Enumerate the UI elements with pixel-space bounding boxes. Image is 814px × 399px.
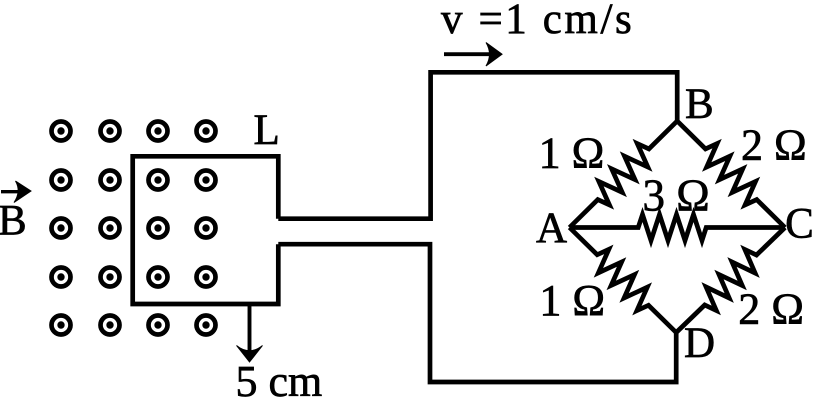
B field vector arrow [1,181,31,203]
field dot 2 [101,122,120,141]
field dot 13 [52,268,71,287]
field dot 14 [101,268,120,287]
velocity arrow [444,43,502,67]
wire upper lead to bridge node B [278,72,677,218]
field dot 8 [197,171,216,190]
svg-text:1 Ω: 1 Ω [539,129,605,178]
svg-text:1 Ω: 1 Ω [539,276,605,325]
wire lower lead to bridge node D [278,244,676,382]
field dot 19 [149,316,168,335]
svg-text:3 Ω: 3 Ω [643,171,710,221]
field dot 5 [52,171,71,190]
svg-text:2 Ω: 2 Ω [741,121,807,170]
field dot 17 [52,316,71,335]
svg-text:5 cm: 5 cm [236,357,323,399]
conducting loop L (square with gap on right side) [133,156,279,304]
field dot 11 [149,219,168,238]
5 cm arrow (down) [237,304,263,362]
resistor 2-ohm arm D-C [676,228,785,333]
resistor 1-ohm arm A-D [570,228,677,333]
resistor 2-ohm arm B-C [677,121,785,228]
svg-text:C: C [785,201,814,248]
field dot 15 [149,268,168,287]
field dot 16 [197,268,216,287]
svg-text:B: B [685,81,714,128]
field dot 20 [197,316,216,335]
svg-text:L: L [254,107,280,154]
resistor 1-ohm arm A-B [570,121,678,228]
svg-text:B: B [0,198,27,245]
field dot 3 [149,122,168,141]
field dot 7 [149,171,168,190]
field dot 4 [197,122,216,141]
svg-text:v =1 cm/s: v =1 cm/s [441,0,634,43]
field dot 18 [101,316,120,335]
field dot 12 [197,219,216,238]
field dot 1 [52,122,71,141]
svg-text:D: D [684,320,715,367]
resistor 3-ohm bridge A-C [570,215,786,241]
field dot 9 [52,219,71,238]
field dot 6 [101,171,120,190]
svg-text:2 Ω: 2 Ω [738,285,804,334]
svg-text:A: A [536,205,567,252]
field dot 10 [101,219,120,238]
